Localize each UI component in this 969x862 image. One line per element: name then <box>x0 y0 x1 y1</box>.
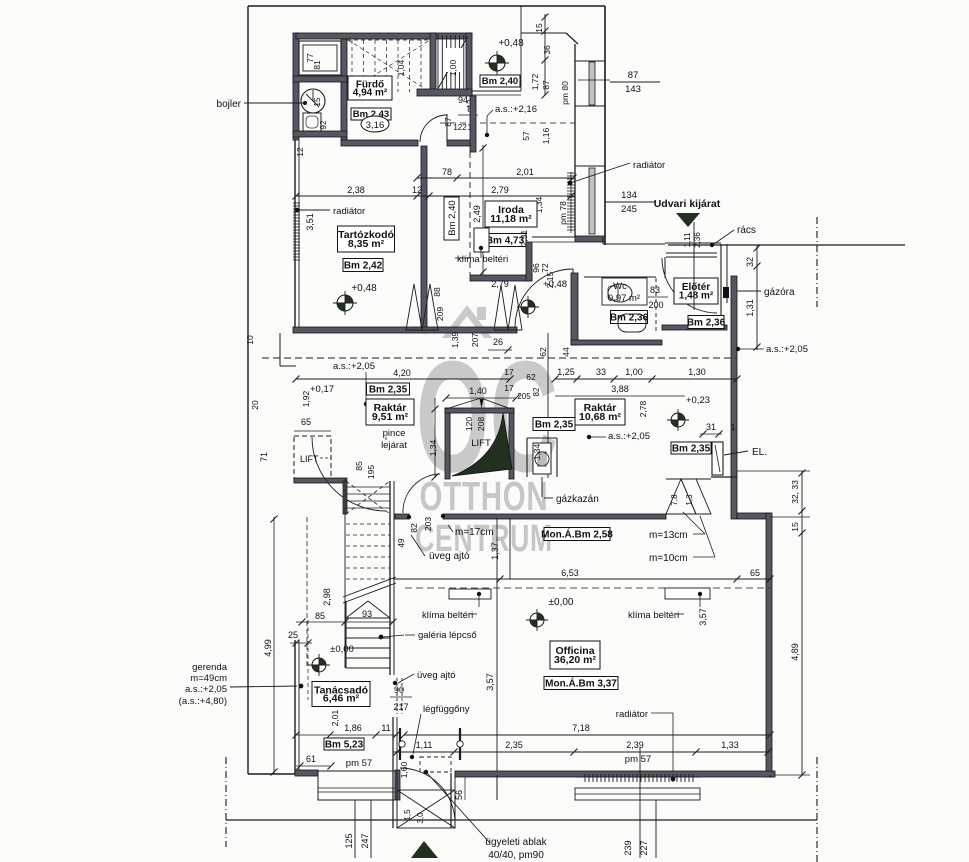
svg-text:31: 31 <box>706 422 716 432</box>
svg-text:4,20: 4,20 <box>393 368 411 378</box>
svg-text:1,60: 1,60 <box>399 761 409 778</box>
svg-text:3,16: 3,16 <box>366 120 385 131</box>
svg-text:125: 125 <box>344 833 354 848</box>
svg-text:gázóra: gázóra <box>764 287 795 298</box>
svg-text:a.s.:+2,05: a.s.:+2,05 <box>333 361 375 372</box>
svg-text:±0,00: ±0,00 <box>549 597 574 608</box>
svg-text:11,18 m²: 11,18 m² <box>490 213 532 225</box>
svg-text:+0,48: +0,48 <box>498 38 524 49</box>
svg-text:3,0: 3,0 <box>416 812 425 824</box>
svg-text:1,5: 1,5 <box>403 809 412 821</box>
svg-text:33: 33 <box>596 367 606 377</box>
svg-text:36: 36 <box>542 45 552 55</box>
svg-text:7,18: 7,18 <box>572 723 590 733</box>
svg-text:+0,17: +0,17 <box>310 384 334 395</box>
svg-text:1,34: 1,34 <box>428 439 438 456</box>
svg-text:pm 80: pm 80 <box>560 81 570 105</box>
svg-text:klíma beltéri: klíma beltéri <box>628 610 679 621</box>
svg-text:85: 85 <box>354 461 364 471</box>
svg-text:88: 88 <box>432 287 442 297</box>
svg-text:1,31: 1,31 <box>745 299 755 317</box>
svg-text:pm 78: pm 78 <box>558 201 568 225</box>
svg-text:Bm 2,35: Bm 2,35 <box>369 384 408 395</box>
svg-text:247: 247 <box>360 833 370 848</box>
svg-text:1: 1 <box>731 423 736 432</box>
svg-text:2,38: 2,38 <box>347 185 365 195</box>
svg-text:Mon.Á.Bm 3,37: Mon.Á.Bm 3,37 <box>545 676 617 689</box>
svg-text:1,3: 1,3 <box>685 494 694 506</box>
svg-text:11: 11 <box>381 723 390 733</box>
svg-text:2,98: 2,98 <box>322 588 332 606</box>
svg-text:15: 15 <box>313 97 322 106</box>
svg-text:üveg ajtó: üveg ajtó <box>429 551 470 562</box>
svg-text:+0,23: +0,23 <box>686 395 710 406</box>
svg-text:8,35 m²: 8,35 m² <box>348 238 385 250</box>
svg-text:radiátor: radiátor <box>333 206 365 217</box>
svg-text:Bm 2,35: Bm 2,35 <box>535 419 574 430</box>
svg-text:1,86: 1,86 <box>344 723 362 733</box>
svg-text:32, 33: 32, 33 <box>790 480 800 504</box>
svg-text:3,57: 3,57 <box>698 608 708 626</box>
svg-text:1,72: 1,72 <box>530 73 540 90</box>
svg-text:49: 49 <box>397 538 406 547</box>
svg-text:61: 61 <box>306 754 316 764</box>
svg-text:143: 143 <box>625 84 641 95</box>
svg-text:1,00: 1,00 <box>448 59 458 76</box>
svg-text:Bm 2,40: Bm 2,40 <box>482 76 518 87</box>
svg-text:200: 200 <box>648 300 663 310</box>
svg-text:(a.s.:+4,80): (a.s.:+4,80) <box>179 696 227 707</box>
svg-text:Bm 2,40: Bm 2,40 <box>447 200 458 235</box>
svg-text:62: 62 <box>538 347 548 357</box>
svg-text:93: 93 <box>362 609 372 619</box>
svg-text:17: 17 <box>504 367 514 377</box>
svg-text:1,16: 1,16 <box>541 127 551 144</box>
svg-text:+0,48: +0,48 <box>543 279 567 290</box>
svg-text:208: 208 <box>476 417 486 431</box>
svg-text:195: 195 <box>366 465 376 479</box>
svg-text:65: 65 <box>750 568 760 578</box>
svg-text:10,68 m²: 10,68 m² <box>579 411 622 423</box>
svg-text:3,57: 3,57 <box>485 673 495 691</box>
svg-text:2,35: 2,35 <box>505 740 523 750</box>
svg-text:a.s.:+2,16: a.s.:+2,16 <box>495 104 537 115</box>
svg-text:227: 227 <box>639 840 649 855</box>
svg-text:Wc: Wc <box>613 281 627 292</box>
svg-text:klíma beltéri: klíma beltéri <box>457 254 508 265</box>
svg-text:87: 87 <box>628 70 639 81</box>
svg-text:1,33: 1,33 <box>721 740 739 750</box>
svg-text:a.s.:+2,05: a.s.:+2,05 <box>185 684 227 695</box>
svg-text:Bm 2,42: Bm 2,42 <box>344 260 383 271</box>
svg-text:85: 85 <box>315 611 325 621</box>
svg-text:90: 90 <box>394 685 404 695</box>
svg-text:239: 239 <box>623 840 633 855</box>
svg-text:3,88: 3,88 <box>611 384 629 394</box>
svg-text:2,01: 2,01 <box>516 167 534 177</box>
svg-text:87: 87 <box>443 117 453 127</box>
svg-text:0,97 m²: 0,97 m² <box>608 293 640 304</box>
svg-text:+0,48: +0,48 <box>351 283 377 294</box>
svg-text:±0,00: ±0,00 <box>330 644 354 655</box>
svg-text:6,53: 6,53 <box>561 568 579 578</box>
svg-text:Bm 2,35: Bm 2,35 <box>672 443 711 454</box>
svg-text:4,94 m²: 4,94 m² <box>353 87 388 98</box>
svg-text:légfüggőny: légfüggőny <box>423 704 470 715</box>
svg-text:1,30: 1,30 <box>688 367 706 377</box>
svg-text:81: 81 <box>312 60 322 70</box>
svg-text:87: 87 <box>541 80 551 90</box>
svg-text:78: 78 <box>442 167 452 177</box>
svg-text:26: 26 <box>493 337 503 347</box>
svg-text:83: 83 <box>650 285 660 295</box>
svg-text:203: 203 <box>423 517 433 531</box>
svg-text:120: 120 <box>464 417 474 431</box>
svg-text:1,11: 1,11 <box>683 232 692 248</box>
svg-text:20: 20 <box>250 400 260 410</box>
svg-text:Mon.Á.Bm 2,58: Mon.Á.Bm 2,58 <box>541 527 613 540</box>
svg-text:2,79: 2,79 <box>491 185 509 195</box>
svg-text:EL.: EL. <box>752 447 767 458</box>
svg-text:36,20 m²: 36,20 m² <box>554 654 597 666</box>
svg-text:galéria lépcső: galéria lépcső <box>418 630 477 641</box>
svg-text:1,37: 1,37 <box>490 542 500 560</box>
svg-text:pm 57: pm 57 <box>346 758 372 769</box>
svg-text:7,8: 7,8 <box>670 494 679 506</box>
svg-text:9,51 m²: 9,51 m² <box>372 411 409 423</box>
svg-text:207: 207 <box>470 333 480 347</box>
svg-text:m=10cm: m=10cm <box>649 553 688 564</box>
svg-text:134: 134 <box>621 190 637 201</box>
svg-text:82: 82 <box>532 387 541 396</box>
svg-text:10: 10 <box>245 335 255 345</box>
svg-text:OTTHON: OTTHON <box>420 473 549 519</box>
svg-text:1,04: 1,04 <box>396 59 406 76</box>
svg-text:12: 12 <box>412 185 422 195</box>
svg-text:40/40, pm90: 40/40, pm90 <box>488 850 544 861</box>
svg-text:m=49cm: m=49cm <box>190 673 227 684</box>
svg-text:15: 15 <box>790 522 800 532</box>
svg-text:4,99: 4,99 <box>263 639 273 657</box>
svg-text:3,51: 3,51 <box>305 213 315 231</box>
svg-text:12: 12 <box>295 147 305 157</box>
svg-text:92: 92 <box>319 120 328 129</box>
svg-text:32: 32 <box>745 257 755 267</box>
svg-text:72: 72 <box>540 263 550 273</box>
svg-text:gerenda: gerenda <box>192 662 228 673</box>
svg-text:209: 209 <box>435 307 445 321</box>
svg-text:1,25: 1,25 <box>557 367 575 377</box>
svg-text:25: 25 <box>288 630 298 640</box>
svg-text:82: 82 <box>409 523 419 533</box>
svg-text:m=17cm: m=17cm <box>455 527 494 538</box>
svg-text:56: 56 <box>454 790 464 800</box>
svg-text:122: 122 <box>453 123 467 132</box>
svg-text:klíma beltéri: klíma beltéri <box>422 610 473 621</box>
svg-text:radiátor: radiátor <box>616 709 648 720</box>
svg-text:15: 15 <box>534 23 544 33</box>
svg-text:radiátor: radiátor <box>633 160 665 171</box>
svg-text:gázkazán: gázkazán <box>556 494 599 505</box>
svg-text:1,11: 1,11 <box>416 740 433 750</box>
svg-text:62: 62 <box>526 372 536 382</box>
svg-text:245: 245 <box>621 204 637 215</box>
svg-text:Udvari kijárat: Udvari kijárat <box>654 198 721 210</box>
svg-text:üveg ajtó: üveg ajtó <box>417 670 456 681</box>
svg-text:bojler: bojler <box>217 99 242 110</box>
svg-text:205: 205 <box>517 392 531 401</box>
svg-text:2,49: 2,49 <box>472 205 482 223</box>
svg-text:2,79: 2,79 <box>491 279 509 289</box>
svg-text:Bm 2,36: Bm 2,36 <box>687 317 726 328</box>
svg-text:2,39: 2,39 <box>626 740 644 750</box>
svg-text:pm 57: pm 57 <box>625 754 651 765</box>
svg-text:Bm 5,23: Bm 5,23 <box>325 739 364 750</box>
svg-text:a.s.:+2,05: a.s.:+2,05 <box>608 431 650 442</box>
svg-text:71: 71 <box>259 452 269 462</box>
svg-text:1,39: 1,39 <box>450 331 460 348</box>
svg-text:4,89: 4,89 <box>790 643 800 661</box>
svg-text:1,48 m²: 1,48 m² <box>679 291 714 302</box>
svg-text:1,34: 1,34 <box>532 443 542 460</box>
svg-text:57: 57 <box>521 131 531 141</box>
svg-text:2,36: 2,36 <box>693 232 702 248</box>
svg-text:rács: rács <box>737 225 756 236</box>
svg-text:m=13cm: m=13cm <box>649 530 688 541</box>
svg-text:1,00: 1,00 <box>625 367 643 377</box>
svg-text:2,78: 2,78 <box>638 400 648 417</box>
svg-text:217: 217 <box>393 702 408 712</box>
svg-text:65: 65 <box>301 417 311 427</box>
svg-text:ügyeleti ablak: ügyeleti ablak <box>485 837 547 848</box>
svg-text:6,46 m²: 6,46 m² <box>323 693 360 705</box>
svg-text:LIFT: LIFT <box>471 438 491 449</box>
svg-text:2,01: 2,01 <box>330 709 340 726</box>
svg-text:lejárat: lejárat <box>381 440 407 451</box>
svg-text:1,40: 1,40 <box>469 386 487 396</box>
svg-text:17: 17 <box>504 383 514 393</box>
svg-text:a.s.:+2,05: a.s.:+2,05 <box>766 344 808 355</box>
svg-text:44: 44 <box>561 347 571 357</box>
